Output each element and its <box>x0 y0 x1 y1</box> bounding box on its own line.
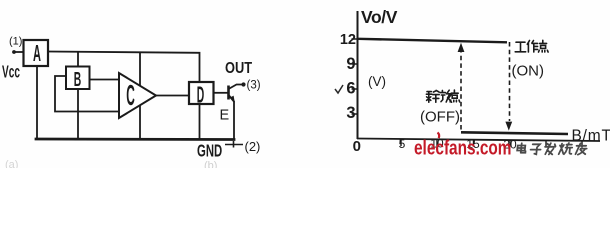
op-amp C triangle <box>119 73 156 118</box>
svg-text:(ON): (ON) <box>512 63 545 80</box>
hanzi 释 <box>426 90 439 102</box>
wire C output to D <box>156 95 189 97</box>
ground rail <box>36 138 234 141</box>
release point up arrow <box>458 43 465 52</box>
svg-text:C: C <box>126 79 135 112</box>
release point dashed line OFF <box>460 48 462 131</box>
block D box <box>189 82 214 104</box>
hanzi 点 <box>450 90 460 102</box>
pin 1 lead with dot <box>15 51 24 53</box>
hanzi 工作点 operate point label <box>515 40 548 52</box>
hanzi 发 <box>544 143 556 154</box>
y axis ticks <box>352 39 359 114</box>
operate point dashed line ON <box>509 42 511 121</box>
svg-text:OUT: OUT <box>225 59 252 76</box>
hanzi 工 <box>515 42 526 52</box>
svg-text:5: 5 <box>399 137 406 151</box>
pin 1 terminal dot <box>12 50 16 54</box>
svg-text:3: 3 <box>346 104 355 122</box>
svg-text:(3): (3) <box>247 80 261 92</box>
svg-text:GND: GND <box>197 141 222 161</box>
svg-text:A: A <box>33 41 41 66</box>
op-amp C label <box>126 79 135 112</box>
x axis <box>357 139 600 142</box>
curve low level line <box>461 132 568 134</box>
hanzi 释放点 release point label <box>426 90 459 102</box>
wire A bottom to ground rail <box>36 66 38 139</box>
block A label <box>33 41 41 66</box>
hanzi 作 <box>527 41 537 53</box>
wire vertical through C from top rail to ground rail <box>139 53 141 139</box>
wire feedback U path B left to C lower input <box>55 76 121 112</box>
pin 2 lead <box>225 141 243 148</box>
block D label <box>197 82 204 108</box>
wire B right to C upper input <box>90 79 121 81</box>
block B box <box>66 67 90 90</box>
block A box <box>24 40 49 66</box>
x axis ticks <box>401 139 582 148</box>
svg-text:(a): (a) <box>5 159 18 168</box>
watermark red accent mark <box>438 133 440 139</box>
svg-text:(OFF): (OFF) <box>420 109 460 126</box>
y axis <box>357 11 359 139</box>
svg-text:B: B <box>74 68 82 91</box>
stray check mark <box>335 85 343 93</box>
transistor Q1 <box>229 85 243 140</box>
wire top rail from A to D <box>48 52 200 83</box>
svg-text:(1): (1) <box>9 36 22 48</box>
svg-text:(2): (2) <box>245 139 261 154</box>
svg-text:Vcc: Vcc <box>2 63 20 83</box>
curve high level line 12V <box>358 39 507 43</box>
svg-text:6: 6 <box>346 80 355 98</box>
wire drop to B top <box>77 52 79 67</box>
wire D to transistor base <box>214 92 228 94</box>
hanzi watermark 电子发烧友 <box>517 143 588 155</box>
wire B bottom to ground rail <box>77 89 79 139</box>
svg-text:D: D <box>197 82 204 108</box>
hanzi 电 <box>517 143 526 152</box>
svg-text:E: E <box>220 108 230 124</box>
hanzi 友 <box>575 143 587 154</box>
svg-text:Vo/V: Vo/V <box>361 7 398 27</box>
svg-text:(V): (V) <box>368 74 386 89</box>
svg-text:9: 9 <box>346 55 355 73</box>
svg-text:(b): (b) <box>204 160 217 168</box>
collector terminal dot pin 3 <box>241 82 245 86</box>
hanzi 点 <box>539 40 549 52</box>
svg-text:elecfans.com: elecfans.com <box>414 137 511 159</box>
operate point down arrow <box>505 122 512 131</box>
svg-text:B/mT: B/mT <box>572 128 610 145</box>
svg-text:0: 0 <box>353 138 361 155</box>
Vcc label <box>2 63 20 83</box>
OUT label <box>225 59 252 76</box>
hanzi 放 <box>440 90 452 102</box>
transistor emitter arrowhead <box>231 96 235 103</box>
svg-text:12: 12 <box>340 32 356 48</box>
hanzi 子 <box>530 144 541 154</box>
hanzi 烧 <box>559 143 573 154</box>
GND label <box>197 141 222 161</box>
wire D bottom to ground rail <box>199 104 201 139</box>
block B label <box>74 68 82 91</box>
watermark elecfans.com <box>414 137 511 159</box>
